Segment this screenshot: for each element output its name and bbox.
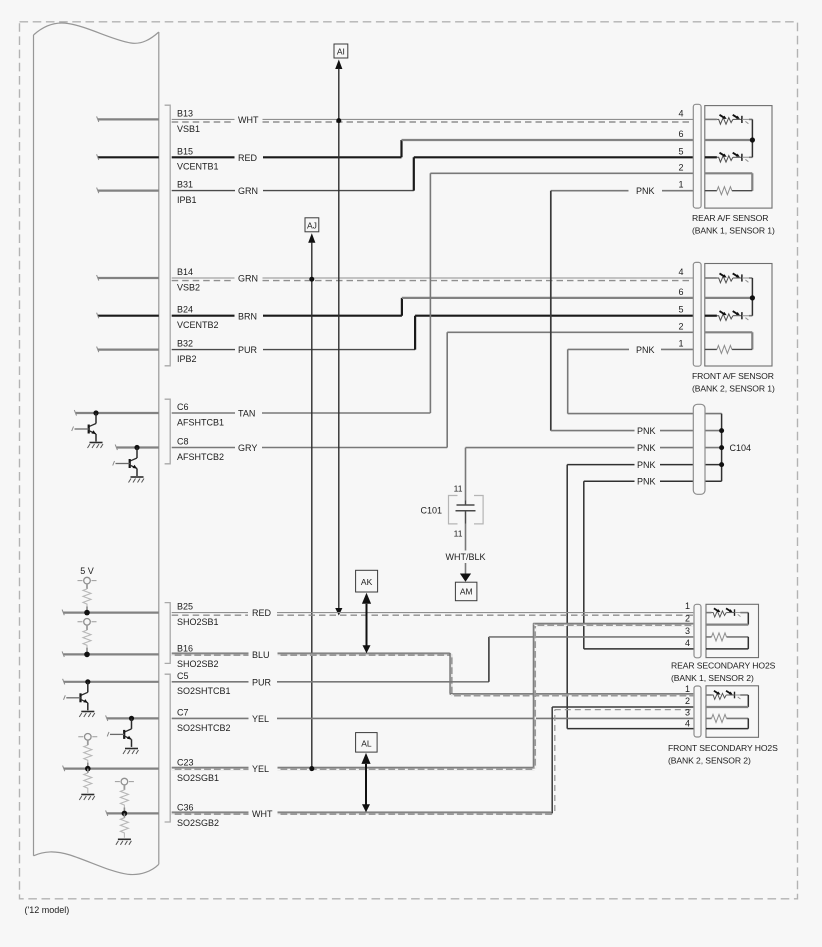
wire PNK C104 row 2 (from rear A/F) (551, 426, 722, 436)
svg-text:REAR SECONDARY HO2S: REAR SECONDARY HO2S (671, 661, 776, 671)
svg-text:SO2SHTCB2: SO2SHTCB2 (177, 723, 231, 733)
svg-text:1: 1 (685, 601, 690, 611)
svg-text:4: 4 (678, 108, 683, 118)
transistor Q2 (AFSHTCB2 driver) (113, 445, 140, 476)
svg-text:RED: RED (252, 608, 272, 618)
wire B14 VSB2 GRN (ECM stub) (97, 275, 159, 281)
resistor above C36 (115, 778, 134, 809)
svg-text:4: 4 (685, 638, 690, 648)
svg-text:SO2SHTCB1: SO2SHTCB1 (177, 686, 231, 696)
wire B13 VSB1 WHT to rear A/F sensor pin 4 (172, 108, 694, 133)
svg-text:BRN: BRN (238, 311, 257, 321)
svg-text:6: 6 (678, 129, 683, 139)
wire B16 SHO2SB2 BLU to front secondary HO2S pin 1 (172, 643, 694, 695)
resistor B25 to B16 (78, 619, 97, 650)
svg-text:3: 3 (685, 707, 690, 717)
connector bracket group C (C5-C36) (165, 674, 171, 822)
svg-text:PNK: PNK (637, 477, 656, 487)
svg-text:SO2SGB1: SO2SGB1 (177, 773, 219, 783)
wire PNK C104 row 3 (to capacitor C101) (466, 443, 722, 453)
wire B32 IPB2 PUR to front A/F sensor pin 5 (172, 316, 694, 364)
svg-text:C6: C6 (177, 402, 189, 412)
svg-text:SHO2SB2: SHO2SB2 (177, 659, 219, 669)
svg-text:2: 2 (685, 614, 690, 624)
svg-text:4: 4 (685, 719, 690, 729)
svg-text:B24: B24 (177, 305, 193, 315)
svg-text:TAN: TAN (238, 409, 255, 419)
svg-text:RED: RED (238, 153, 258, 163)
resistor above C23 (78, 734, 97, 765)
svg-text:(BANK 2, SENSOR 1): (BANK 2, SENSOR 1) (692, 384, 775, 394)
svg-text:1: 1 (685, 684, 690, 694)
resistor C36 to ground (123, 813, 125, 817)
ground (Q4 emitter) (123, 749, 139, 755)
svg-text:AI: AI (337, 47, 345, 57)
svg-text:B32: B32 (177, 339, 193, 349)
svg-text:VSB1: VSB1 (177, 124, 200, 134)
arrow AK (from AK) (356, 570, 378, 653)
svg-text:2: 2 (678, 321, 683, 331)
svg-text:('12 model): ('12 model) (25, 905, 70, 915)
front secondary HO2S body (668, 684, 778, 766)
svg-text:AL: AL (361, 738, 372, 748)
svg-text:(BANK 1, SENSOR 1): (BANK 1, SENSOR 1) (692, 226, 775, 236)
svg-text:2: 2 (678, 162, 683, 172)
svg-text:(BANK 2, SENSOR 2): (BANK 2, SENSOR 2) (668, 756, 751, 766)
wire B24 VCENTB2 BRN (ECM stub) (97, 313, 159, 319)
pin 5 internal + sensing cell (705, 156, 717, 158)
wire PNK C104 row 5 (to rear secondary HO2S pin 4) (584, 477, 722, 649)
rear A/F sensor body (678, 106, 774, 236)
svg-text:PUR: PUR (238, 345, 258, 355)
internal vertical link (751, 119, 753, 157)
svg-text:5 V: 5 V (80, 566, 94, 576)
wire B24 VCENTB2 BRN to front A/F sensor pin 6 (172, 298, 694, 330)
svg-text:SO2SGB2: SO2SGB2 (177, 818, 219, 828)
arrow AM (to AM) (455, 574, 477, 601)
wire C6 AFSHTCB1 TAN (ECM stub) (74, 410, 159, 416)
connector bracket group B (B25-B16) (165, 603, 171, 664)
wire PNK C104 row 1 (from front A/F) (568, 413, 722, 415)
svg-text:PNK: PNK (637, 443, 656, 453)
pin 1 internal + heater resistor (705, 190, 753, 192)
svg-text:BLU: BLU (252, 650, 270, 660)
resistor C23 to ground (87, 769, 89, 773)
arrow AL (from AL) (356, 733, 378, 813)
connector bracket group B (B13-B32) (165, 105, 171, 366)
svg-text:B14: B14 (177, 267, 193, 277)
svg-text:GRN: GRN (238, 274, 258, 284)
svg-text:1: 1 (678, 338, 683, 348)
svg-text:IPB2: IPB2 (177, 354, 197, 364)
svg-text:WHT: WHT (238, 115, 259, 125)
svg-text:WHT/BLK: WHT/BLK (445, 552, 485, 562)
connector front secondary HO2S (bar) (694, 686, 701, 737)
connector C104 (693, 404, 751, 494)
front A/F sensor body (678, 264, 774, 394)
wire C6 AFSHTCB1 TAN to rear A/F sensor pin 2 (172, 173, 694, 427)
transistor Q3 (SO2SHTCB1 driver) (64, 679, 91, 710)
wire PNK C104 row 4 (to front secondary HO2S pin 4) (567, 460, 721, 728)
wire C8 AFSHTCB2 GRY (ECM stub) (115, 445, 159, 451)
svg-text:4: 4 (678, 267, 683, 277)
svg-text:GRN: GRN (238, 186, 258, 196)
ECM/PCM block (torn-edge box) (34, 23, 159, 43)
svg-text:PNK: PNK (636, 345, 655, 355)
resistor pull-up 5V to B25 (78, 577, 97, 608)
wire B15 VCENTB1 RED (ECM stub) (97, 154, 159, 160)
svg-text:YEL: YEL (252, 714, 269, 724)
wire B25 SHO2SB1 RED (ECM stub) (62, 610, 159, 616)
capacitor C101 (420, 448, 485, 574)
svg-text:11: 11 (454, 529, 463, 539)
svg-text:C7: C7 (177, 707, 189, 717)
ground (Q1 emitter) (88, 443, 104, 449)
wire PNK front A/F sensor pin 1 to C104 (568, 345, 694, 414)
pin 4 internal + sensing cell (705, 118, 717, 120)
svg-text:WHT: WHT (252, 809, 273, 819)
wire C7 SO2SHTCB2 YEL to front secondary HO2S pin 3 (172, 707, 694, 732)
svg-text:PNK: PNK (637, 426, 656, 436)
connector rear secondary HO2S (bar) (694, 604, 701, 658)
svg-text:AJ: AJ (307, 220, 317, 230)
pin 6 internal (705, 139, 753, 141)
svg-text:REAR A/F SENSOR: REAR A/F SENSOR (692, 213, 768, 223)
svg-text:C23: C23 (177, 758, 194, 768)
transistor Q1 (AFSHTCB1 driver) (72, 410, 99, 441)
svg-text:5: 5 (678, 146, 683, 156)
ground (C23 resistor) (79, 795, 95, 801)
ground (Q2 emitter) (129, 477, 145, 483)
wire C23 SO2SGB1 YEL (ECM stub) (63, 766, 159, 772)
svg-text:C5: C5 (177, 671, 189, 681)
svg-text:PNK: PNK (637, 460, 656, 470)
wire C36 SO2SGB2 WHT (ECM stub) (106, 810, 159, 816)
wire C36 SO2SGB2 WHT to front secondary HO2S pin 2 (172, 707, 694, 828)
arrow AJ (from AJ) (305, 218, 319, 771)
rear secondary HO2S body (671, 601, 776, 683)
svg-text:C101: C101 (420, 506, 442, 516)
svg-text:B13: B13 (177, 108, 193, 118)
svg-text:5: 5 (678, 305, 683, 315)
connector front A/F sensor (bar) (693, 262, 701, 366)
svg-text:1: 1 (678, 180, 683, 190)
wire B14 VSB2 GRN to front A/F sensor pin 4 (172, 267, 694, 292)
svg-text:3: 3 (685, 626, 690, 636)
svg-text:AM: AM (460, 587, 473, 597)
wire C7 SO2SHTCB2 YEL (ECM stub) (106, 715, 159, 721)
wire B15 VCENTB1 RED to rear A/F sensor pin 6 (172, 140, 694, 172)
svg-text:C8: C8 (177, 437, 189, 447)
svg-text:11: 11 (454, 484, 463, 494)
svg-text:B25: B25 (177, 602, 193, 612)
wire C8 AFSHTCB2 GRY to front A/F sensor pin 2 (172, 332, 694, 462)
wire C5 SO2SHTCB1 PUR to rear secondary HO2S pin 3 (172, 637, 694, 696)
svg-text:VCENTB1: VCENTB1 (177, 162, 219, 172)
svg-text:PUR: PUR (252, 677, 272, 687)
svg-text:FRONT SECONDARY HO2S: FRONT SECONDARY HO2S (668, 743, 778, 753)
pin 2 internal loop (705, 173, 753, 190)
connector rear A/F sensor (bar) (693, 104, 701, 208)
svg-text:(BANK 1, SENSOR 2): (BANK 1, SENSOR 2) (671, 673, 754, 683)
wire B32 IPB2 PUR (ECM stub) (97, 347, 159, 353)
svg-text:AK: AK (361, 577, 373, 587)
wire B31 IPB1 GRN to rear A/F sensor pin 5 (172, 157, 694, 205)
svg-text:B15: B15 (177, 146, 193, 156)
svg-text:C104: C104 (730, 443, 752, 453)
svg-text:YEL: YEL (252, 764, 269, 774)
svg-text:C36: C36 (177, 802, 194, 812)
ground (Q3 emitter) (79, 712, 95, 718)
svg-text:FRONT A/F SENSOR: FRONT A/F SENSOR (692, 371, 774, 381)
ground (C36 resistor) (116, 839, 131, 845)
transistor Q4 (SO2SHTCB2 driver) (107, 716, 134, 747)
svg-text:AFSHTCB1: AFSHTCB1 (177, 417, 224, 427)
svg-text:SHO2SB1: SHO2SB1 (177, 617, 219, 627)
svg-text:IPB1: IPB1 (177, 195, 197, 205)
svg-text:6: 6 (678, 287, 683, 297)
svg-text:PNK: PNK (636, 186, 655, 196)
wire C5 SO2SHTCB1 PUR (ECM stub) (63, 679, 159, 685)
svg-text:VCENTB2: VCENTB2 (177, 320, 219, 330)
arrow AI (from AI) (334, 44, 348, 616)
wire PNK rear A/F sensor pin 1 to C104 (551, 186, 694, 430)
svg-text:2: 2 (685, 696, 690, 706)
wire B13 VSB1 WHT (ECM stub) (97, 116, 159, 122)
svg-text:VSB2: VSB2 (177, 282, 200, 292)
svg-text:GRY: GRY (238, 443, 257, 453)
connector bracket group C (C6-C8) (165, 399, 171, 464)
wire C23 SO2SGB1 YEL to rear secondary HO2S pin 2 (172, 623, 694, 783)
svg-text:B31: B31 (177, 180, 193, 190)
svg-text:AFSHTCB2: AFSHTCB2 (177, 452, 224, 462)
wire B16 SHO2SB2 BLU (ECM stub) (62, 651, 159, 657)
wire B31 IPB1 GRN (ECM stub) (97, 188, 159, 194)
svg-text:B16: B16 (177, 643, 193, 653)
node AJ junction on C23 wire (309, 766, 314, 771)
wire B25 SHO2SB1 RED to rear secondary HO2S pin 1 (172, 602, 694, 627)
